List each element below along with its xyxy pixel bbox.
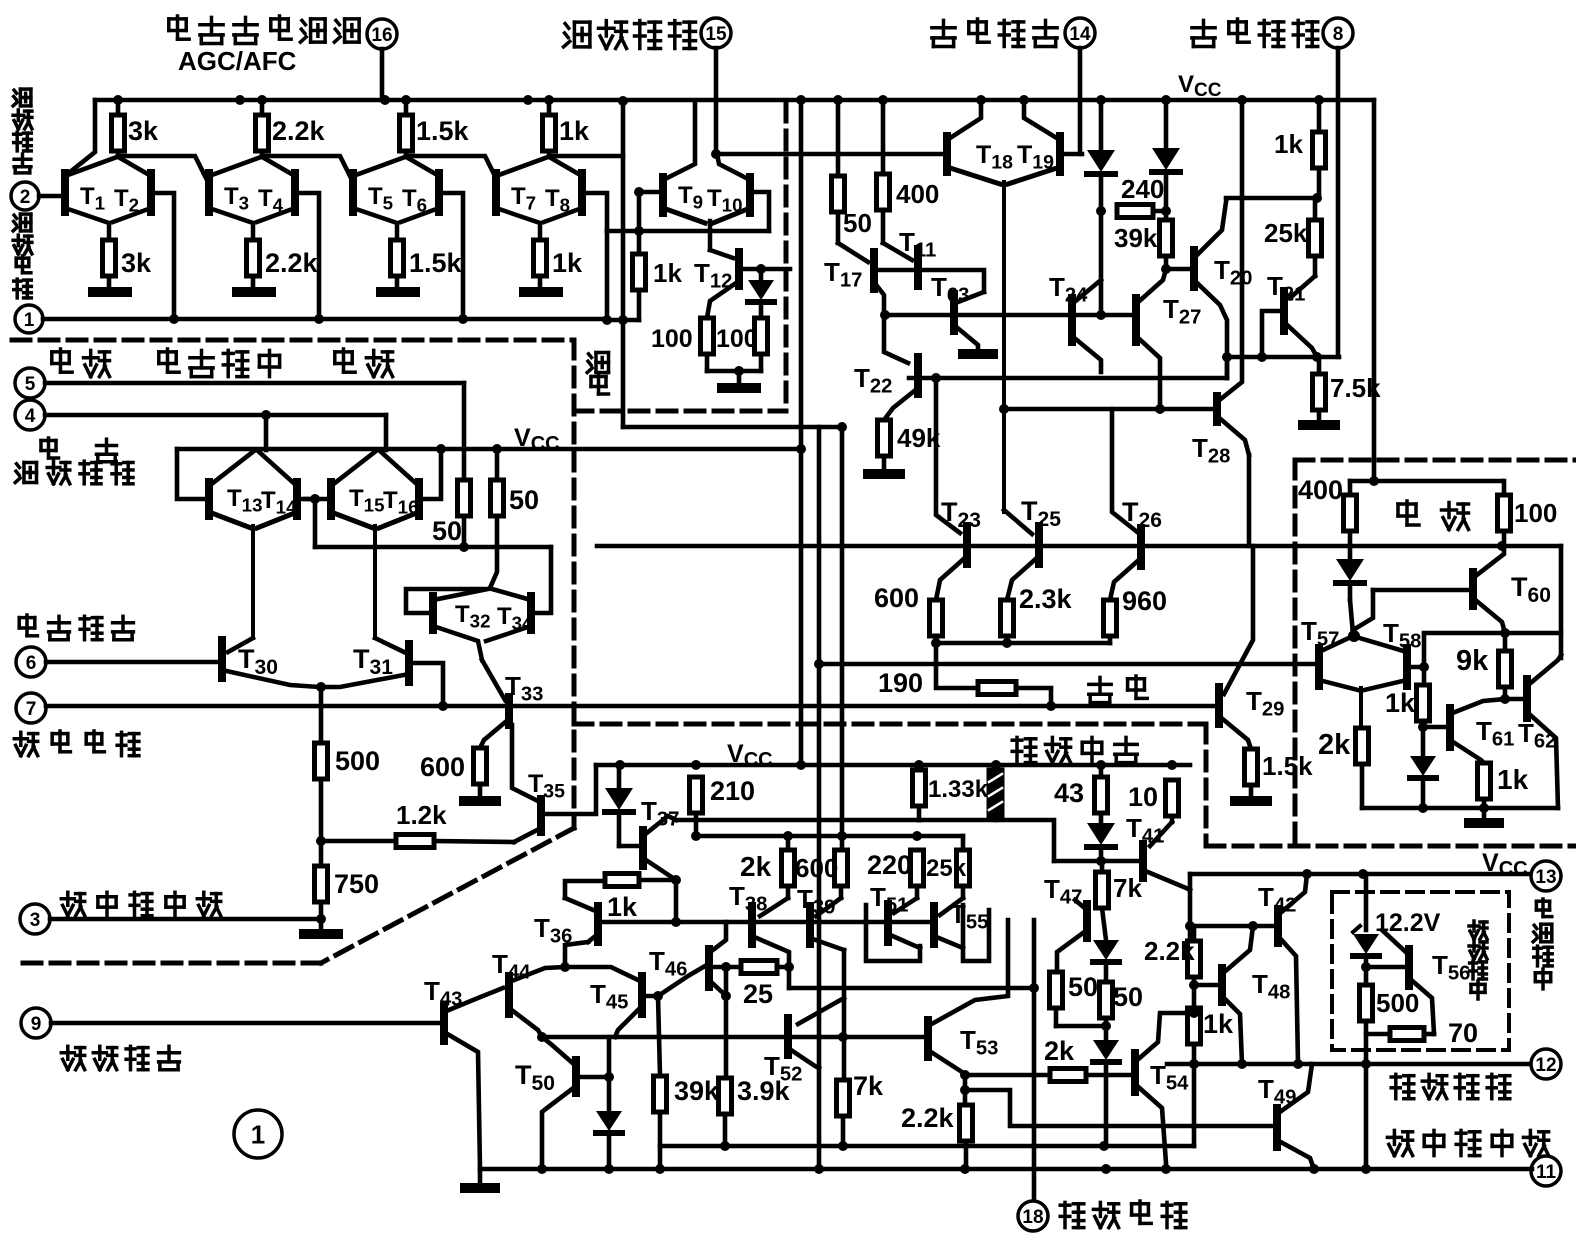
wire y861 [1054,856,1143,866]
wire 190 path [936,643,1051,706]
label 500 shunt [1376,988,1419,1018]
pin 2 [11,182,65,210]
diode T12 cell [748,269,774,318]
label T47 [1044,874,1082,909]
resistor 240 [1117,205,1166,218]
svg-text:7: 7 [26,699,37,720]
wire T32 base loop [406,589,484,613]
svg-text:8: 8 [1333,24,1344,45]
dashed border top section [12,338,573,343]
wire T45 base right [646,991,663,1001]
label 600 audio [795,853,838,883]
svg-text:1k: 1k [1497,764,1529,795]
wire y357 [1222,352,1339,362]
label 1k T61 [1497,764,1529,795]
node x1242 top [1237,95,1247,105]
label 100 left [651,325,693,353]
label RF decouple [14,731,139,756]
label 7.5k [1330,373,1381,403]
transistor T11 [874,243,918,286]
wire T4 base down [295,193,319,319]
label audio decouple [1060,1201,1186,1228]
label 1k left T12 [653,258,682,288]
resistor 2k reg [1356,728,1369,808]
resistor 70 shunt [1366,1028,1434,1041]
label audio amp [1012,737,1137,762]
resistor 100 reg [1498,481,1511,546]
pin 18 [1018,1201,1048,1231]
pin 14 [1065,18,1095,154]
dashed reg box left [1293,460,1298,846]
label T49 [1258,1074,1296,1109]
transistor T63 [954,292,984,352]
pin 5 [15,368,464,398]
pin 11 [1531,1156,1561,1186]
wire x551 down [535,547,551,613]
transistor pair T18 T19 [947,100,1060,512]
transistor T35 [514,765,596,842]
svg-text:6: 6 [26,653,37,674]
wire T35 collector up [0,0,1,1]
wire T50 base [580,1037,614,1082]
label 2k audio2 [1044,1036,1075,1066]
transistor T41 [1143,822,1190,890]
label 49k [897,423,941,453]
ground 49k [868,469,900,479]
svg-text:960: 960 [1122,586,1167,616]
label T43 [424,976,462,1011]
resistor R7 top 1k [543,95,556,156]
wire x1366 shunt [1364,874,1369,930]
wire T55 emitter channel [963,905,989,961]
svg-text:1k: 1k [1274,129,1303,159]
label shunt reg [1469,921,1487,999]
wire T53em to T54 [965,1075,1131,1105]
transistor T50 [542,1037,576,1169]
diode zener [1353,926,1379,956]
svg-text:15: 15 [705,24,727,45]
svg-text:9: 9 [31,1014,42,1035]
svg-text:12: 12 [1535,1055,1556,1076]
wire reg top bar [1350,479,1502,484]
transistor T54 [1135,1053,1166,1169]
label 3k bottom [121,248,152,278]
wire y643 join [936,641,1110,646]
wire vert x623 [618,96,628,427]
ground below pair T5 [381,287,415,297]
resistor 25k audio [957,836,970,898]
svg-text:25: 25 [743,979,773,1009]
transistor T45 [615,976,642,1037]
label 1k right low [1203,1009,1234,1039]
transistor pair T5 T6 [353,157,439,240]
resistor 9k [1499,633,1512,704]
resistor 39k audio [654,1076,667,1169]
wire y633 [1424,628,1561,638]
label 50 mid [843,208,872,238]
label 10 [1128,782,1158,812]
transistor pair T57 T58 [1301,616,1421,728]
label T30 [238,644,278,679]
wire zener down [1361,956,1371,985]
label AGC/AFC [178,46,297,76]
wire T23 collector [936,378,960,533]
svg-text:50: 50 [1113,982,1143,1012]
svg-text:50: 50 [509,485,539,515]
diode D1 [1087,95,1115,216]
transistor T26 [1110,409,1141,600]
label 1.2k [396,800,447,830]
dashed border left vertical [572,340,577,828]
label 1k right top [1274,129,1303,159]
transistor pair T13 T14 [209,415,297,638]
resistor 400 reg [1344,481,1357,559]
label 43 [1054,778,1084,808]
node T30 T31 emitters [316,682,326,743]
wire T44 node [560,942,588,972]
diode D2 [1152,95,1180,216]
wire horiz y427 [623,422,847,432]
pin 6 [16,647,218,677]
wire T15 base left [305,497,327,502]
label wenya [1398,501,1469,530]
resistor R3 top 2.2k [256,95,269,156]
dashed audio box right [1204,724,1209,846]
label IF amp (zhongfang) [587,353,608,395]
dashed shunt box [1332,892,1509,1050]
ground T43 [465,1169,495,1188]
resistor 1k T58 [1417,685,1430,732]
resistor 25 audio [741,961,777,974]
svg-text:1.5k: 1.5k [409,248,463,278]
label 100 reg [1514,498,1557,528]
label T31 [353,644,393,679]
resistor 1.2k [321,835,514,848]
label Vcc 13 [1482,849,1528,880]
transistor T30 [222,638,319,687]
ground below pair T1 [93,287,127,297]
svg-text:43: 43 [1054,778,1084,808]
transistor T37 [619,816,676,880]
svg-text:1.5k: 1.5k [1262,751,1313,781]
wire T1 collector to bus [65,100,95,176]
label T55 [950,899,988,934]
transistor T62 [1527,655,1561,808]
resistor 1.5k mid [1245,749,1258,797]
diode T47a [1093,940,1119,982]
label 12.2V [1375,909,1441,937]
diode T61 [1410,727,1436,808]
svg-text:3k: 3k [128,116,159,146]
svg-text:1: 1 [251,1119,265,1149]
label T62 [1518,718,1556,753]
resistor 750 [315,841,328,930]
label IF out mid [15,461,133,484]
svg-text:14: 14 [1069,24,1091,45]
svg-text:7k: 7k [1113,873,1142,903]
wire base bus y922 [598,920,934,925]
transistor T28 [1217,100,1249,455]
wire T62 base [1505,697,1523,702]
resistor 600 audio [835,850,848,898]
transistor T51 [888,898,920,948]
svg-text:2.3k: 2.3k [1019,584,1073,614]
wire 1.33k down [917,818,922,823]
diode 43cell [1087,810,1115,861]
label IF output top [564,21,696,49]
label T46 [649,946,687,981]
svg-text:1.33k: 1.33k [928,776,989,803]
label 600 mid [874,583,919,613]
label 2.2k top [272,116,326,146]
svg-text:39k: 39k [1114,223,1158,253]
ground 600 [464,796,496,806]
resistor 3.9k audio [719,1078,732,1146]
wire T22 collector long [909,373,1227,383]
wire y836 [696,831,963,841]
resistor 1k T61 [1478,763,1491,808]
wire Vcc mid bus [177,444,801,454]
svg-text:400: 400 [896,179,939,209]
label T23 [941,497,981,532]
resistor 2k audio2 [1050,1069,1086,1082]
label T22 [854,363,892,398]
pin 4 [15,400,386,430]
svg-text:400: 400 [1298,475,1343,505]
label 2.2k audio [901,1103,955,1133]
wire vert x801 [796,95,806,770]
wire x725 down [721,967,731,1078]
label 25 audio [743,979,773,1009]
transistor T44 [509,967,565,1037]
transistor T53 [928,920,1008,1075]
svg-text:500: 500 [335,746,380,776]
label 50 left [432,516,462,546]
ground 7.5k [1303,420,1335,430]
label 2k audio [740,851,772,882]
svg-text:600: 600 [874,583,919,613]
wire T6 base down [439,193,463,319]
svg-text:10: 10 [1128,782,1158,812]
label 500 [335,746,380,776]
label T37 [641,796,679,831]
svg-text:100: 100 [651,325,693,353]
pin 16 [367,19,397,100]
label 1k audio [607,892,638,922]
label 25k [1264,218,1308,248]
label 1.33k [928,776,989,803]
svg-text:25k: 25k [1264,218,1308,248]
wire 25 to T38em [777,962,794,972]
label high level gnd [1387,1130,1548,1155]
svg-text:500: 500 [1376,988,1419,1018]
label T41 [1126,813,1164,848]
wire x1101 down [1096,211,1106,320]
wire vert x819 [814,427,824,1174]
wire pin7 long [46,701,1215,711]
resistor R1 bottom 3k [103,240,116,290]
label AM gain adjust [169,16,359,44]
wire y1037 bus [542,1032,928,1042]
transistor T47 [1057,900,1087,972]
wire x676 down [671,880,681,927]
wire T19 base pin14 [1064,152,1082,157]
resistor 10 [1166,780,1179,822]
label 39k audio [674,1076,720,1106]
resistor 100 right [755,318,768,371]
svg-text:70: 70 [1448,1018,1478,1048]
transistor T60 [1473,546,1505,633]
label 1k top [559,116,590,146]
svg-text:16: 16 [371,25,392,46]
wire x1190 [1185,874,1195,941]
wire 1k left down [565,881,605,898]
transistor pair T1 T2 [65,157,151,240]
label mixer [335,349,393,377]
label det output [1192,19,1318,47]
transistor T39 [810,898,844,950]
wire T13 base left [177,449,205,499]
svg-text:100: 100 [716,325,758,353]
pin 12 wire [1167,1059,1532,1069]
transistor T12 [707,250,790,318]
wire T28 emitter down [1247,455,1252,546]
label IF input vertical [13,89,32,173]
resistor 2.3k [1001,600,1014,648]
diode T47b [1093,1026,1119,1146]
wire y315 bus [880,310,1136,320]
label 70 shunt [1448,1018,1478,1048]
wire x1561 [1559,546,1564,658]
dashed reg box top [1295,458,1576,463]
wire T60 base [1373,588,1469,593]
resistor 2k audio [782,836,795,898]
svg-text:2.2k: 2.2k [265,248,319,278]
transistor T20 [1166,202,1227,378]
svg-text:2: 2 [20,187,31,208]
wire 1k to right [552,154,623,159]
resistor 600 mid [930,600,943,648]
wire 3k to T3 base [118,156,206,178]
label LF input [61,1046,179,1069]
label T33 [505,671,543,706]
ground reg [1469,808,1499,823]
pin big 1 [234,1110,282,1158]
svg-text:3k: 3k [121,248,152,278]
resistor R7 bottom 1k [534,240,547,290]
wire y320 stub [607,318,639,323]
resistor 50 mid [832,95,845,243]
svg-text:1: 1 [24,310,35,331]
label 960 [1122,586,1167,616]
resistor R5 top 1.5k [400,95,413,156]
wire T45 to T46 [658,966,705,996]
wire T44-T45 link [565,967,638,980]
svg-text:100: 100 [1514,498,1557,528]
transistor T23 [936,526,967,600]
label T54 [1150,1060,1189,1095]
label T45 [590,979,628,1014]
transistor T56 [1382,930,1434,1034]
svg-text:39k: 39k [674,1076,720,1106]
svg-text:2k: 2k [740,851,772,882]
wire hatched down [994,817,999,820]
wire pin16 bus dots [235,95,533,105]
label 1k T58 [1385,688,1416,718]
label T42 [1258,882,1296,917]
pin 7 [16,693,46,723]
pin 1 [15,305,43,333]
wire 1.5k to T7 base [406,156,496,178]
resistor 1k T12 left [633,187,646,320]
label T53 [960,1025,998,1060]
svg-text:50: 50 [843,208,872,238]
label power supply voltage [1533,899,1552,989]
label T36 [534,913,572,948]
wire T16 collector loop [423,449,441,499]
label 400 reg [1298,475,1343,505]
label T20 [1214,255,1252,290]
label 2.3k [1019,584,1073,614]
wire y988 long [789,983,1039,993]
svg-text:AGC/AFC: AGC/AFC [178,46,297,76]
dashed IF box bottom [574,409,786,414]
pin 15 [701,18,731,154]
label AM input [19,615,133,640]
transistor T31 [323,638,409,687]
svg-text:1k: 1k [552,248,583,278]
wire y378 to x1227 [1225,357,1230,378]
label oscillator [52,349,110,377]
label 2.2k bottom [265,248,319,278]
label T56 [1432,950,1470,985]
resistor 1k right low [1188,1008,1201,1146]
label T52 [764,1051,802,1086]
svg-text:600: 600 [420,752,465,782]
svg-text:9k: 9k [1456,645,1489,677]
transistor T21 [1262,276,1317,357]
label 190 [878,668,923,698]
svg-text:1k: 1k [653,258,682,288]
label 100 right [716,325,758,353]
wire Vcc top bus [95,98,1374,103]
wire bottom rail [480,1164,1532,1174]
label AM [41,438,117,462]
wire Vcc to reg [1369,100,1379,486]
wire y198 [1226,193,1322,203]
label low level gnd [61,892,220,915]
label T61 [1476,716,1514,751]
label T44 [492,949,531,984]
wire T56 base [1366,965,1405,970]
wire vert x842 [837,427,847,850]
ground 1.5k [1235,796,1267,806]
label 1.5k mid [1262,751,1313,781]
wire T31 base right [413,663,443,706]
svg-text:1k: 1k [1203,1009,1234,1039]
svg-text:2.2k: 2.2k [272,116,326,146]
node 500-750 junction [316,836,326,846]
svg-text:2.2k: 2.2k [1144,936,1195,966]
label T21 [1267,271,1305,306]
transistor T36 [565,898,598,942]
resistor 100 left [701,318,714,371]
label 7k right [1113,873,1142,903]
wire T2 base to pin1 bus [151,193,174,319]
svg-text:4: 4 [25,406,36,427]
resistor R1 top 3k [112,95,125,156]
label T24 [1049,272,1088,307]
